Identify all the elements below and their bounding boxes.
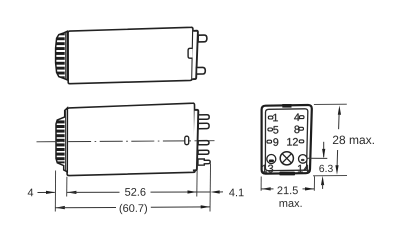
relay side view: pin 4: [198, 150, 209, 154]
relay top view: latch notch: [188, 48, 192, 58]
bottom view: inner face outline: [265, 109, 307, 171]
bottom view: pin slot row2 left: [268, 128, 273, 131]
dimension 4 label: [28, 189, 34, 197]
relay top view: cap inner edge line: [65, 33, 67, 79]
bottom view: pin 9 label: [273, 138, 278, 146]
dimension extension line D (pin tip): [209, 164, 212, 212]
bottom view: bottom locating tab: [279, 172, 295, 176]
leader line from pin 14: [307, 157, 327, 159]
dimension 28 max label: [333, 136, 374, 145]
relay side view: cap inner edge line: [65, 111, 67, 171]
dimension 21.5 right extension line: [313, 176, 315, 191]
bottom view: top locating tab: [282, 104, 291, 108]
dimension extension line B (body face): [66, 177, 68, 197]
dimension 21.5 label: [277, 186, 297, 194]
dimension 21.5 left arrow: [261, 187, 270, 190]
dimension (60.7) label: [120, 204, 147, 214]
dimension 4.1 label: [229, 189, 244, 197]
relay side view: pin 5 stepped: [198, 159, 210, 165]
bottom view: pin 5 label: [273, 126, 278, 134]
relay side view: centre line: [37, 141, 215, 142]
relay top view: upper pin: [198, 35, 207, 42]
bottom view: pin 12 label: [287, 138, 298, 146]
relay side view: pin 2: [198, 123, 209, 128]
dimension 4.1 arrow: [210, 190, 219, 193]
bottom view: pin 4 label: [294, 113, 299, 120]
bottom view: pin 13 label: [262, 165, 273, 173]
relay top view: rear flange: [192, 31, 198, 79]
dimension extension line C (body rear): [196, 164, 198, 196]
dimension 52.6 right arrow: [151, 191, 197, 193]
bottom view: pin 8 label: [294, 126, 299, 134]
dimension 28 max lower arrow: [336, 150, 339, 166]
bottom view: pin slot row3 right: [299, 140, 304, 143]
bottom view: centre boss circle with cross: [280, 152, 293, 165]
bottom view: pin slot row2 right: [299, 127, 304, 130]
dimension max label under 21.5: [280, 201, 302, 207]
relay side view: pin 1: [198, 115, 209, 120]
dimension 6.3 lower arrow: [321, 176, 324, 185]
relay side view: rear flange: [193, 110, 198, 171]
bottom view: pin slot row1 right: [299, 116, 304, 119]
relay top view: ribbed cap outline: [56, 31, 68, 80]
relay top view: lower pin: [196, 67, 205, 74]
dimension extension line A (cap left): [54, 171, 56, 212]
bottom view: pin 14 label: [298, 165, 309, 173]
relay side view: latch notch: [185, 136, 189, 145]
dimension 4.1 connector: [197, 191, 210, 193]
dimension 4 arrow: [38, 191, 55, 193]
bottom view: pin slot row1 left: [268, 116, 273, 119]
relay side view: body outline: [67, 103, 195, 175]
bottom view: pin 1 label: [273, 114, 278, 121]
relay side view: ribbed cap outline: [56, 108, 67, 172]
bottom view: pin 13 circle: [267, 155, 276, 164]
dimension 21.5 right arrow: [303, 188, 315, 190]
bottom view: outer case outline: [262, 105, 312, 174]
dimension 52.6 left arrow: [67, 191, 76, 194]
relay top view: rib stripes: [54, 32, 65, 79]
dimension (60.7) left arrow: [55, 206, 64, 209]
bottom view: pin 14 circle: [299, 155, 308, 164]
extension line from case top: [314, 103, 347, 105]
dimension 52.6 label: [125, 188, 145, 196]
dimension (60.7) right arrow: [151, 206, 210, 208]
dimension 28 max upper arrow: [338, 105, 341, 114]
relay side view: pin 3 centre: [198, 141, 209, 145]
relay top view: body outline: [68, 27, 193, 83]
dimension 21.5 left extension line: [260, 177, 262, 191]
dimension 6.3 upper arrow: [323, 142, 325, 157]
extension line from case bottom: [313, 175, 347, 177]
dimension 6.3 label: [319, 165, 332, 172]
bottom view: pin slot row3 left: [267, 140, 272, 143]
relay side view: rib stripes: [54, 120, 65, 163]
